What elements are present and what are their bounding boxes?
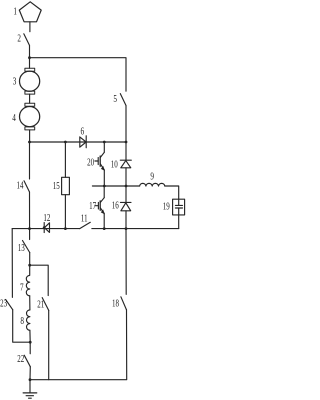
junction resistor top: [64, 141, 67, 144]
wire pentagon to switch 2: [29, 22, 31, 32]
svg-text:8: 8: [20, 316, 24, 327]
svg-text:18: 18: [112, 298, 119, 309]
switch 11: [80, 222, 92, 230]
wire switch 5 to node C: [125, 106, 127, 143]
junction diode16 bottom: [125, 227, 128, 230]
diode D10: [120, 142, 131, 186]
svg-text:10: 10: [111, 159, 118, 170]
diode D6: [80, 136, 86, 148]
junction diode10 top: [125, 141, 128, 144]
svg-text:23: 23: [0, 298, 7, 309]
switch 2: [24, 34, 30, 46]
svg-text:5: 5: [113, 94, 117, 105]
switch 13: [23, 241, 30, 253]
component 19 (battery box): [173, 199, 185, 215]
ground: [23, 380, 37, 399]
wire switch 21 to bottom rail: [48, 310, 50, 379]
rail node F y186: [92, 185, 139, 187]
svg-text:22: 22: [17, 354, 24, 365]
wire motor 3 to motor 4: [29, 94, 31, 103]
svg-text:1: 1: [13, 6, 17, 17]
switch 21: [42, 298, 49, 311]
igbt 20: [95, 142, 105, 186]
junction igbt17 emitter rail: [103, 227, 106, 230]
inductor 8: [26, 310, 29, 330]
junction igbt20 top: [103, 141, 106, 144]
switch 22: [24, 355, 30, 367]
wire motor 4 to node B: [29, 130, 31, 142]
wire box 19 to rail C: [178, 215, 180, 229]
svg-text:3: 3: [13, 76, 17, 87]
svg-text:20: 20: [87, 158, 94, 169]
node A junction: [28, 56, 31, 59]
inductor 7: [26, 265, 29, 296]
bottom rail wire: [30, 310, 127, 380]
inductor 9: [140, 183, 165, 186]
motor 4: [20, 103, 40, 130]
node B junction: [28, 141, 31, 144]
rail C y228: [12, 228, 179, 230]
wire rail C left corner to switch 23: [11, 229, 13, 298]
wire inductor 9 to box 19: [165, 186, 179, 199]
wire switch 22 to ground node: [29, 367, 31, 380]
node D junction: [28, 264, 31, 267]
wire node E to switch 22: [29, 342, 31, 354]
svg-text:19: 19: [163, 202, 170, 213]
svg-text:16: 16: [112, 201, 119, 212]
svg-text:9: 9: [150, 172, 154, 183]
igbt 17: [95, 186, 105, 229]
svg-text:15: 15: [53, 181, 60, 192]
switch 5: [120, 94, 126, 106]
svg-text:14: 14: [17, 180, 24, 191]
wire node D to switch 21 branch: [30, 265, 49, 295]
diode D12: [43, 223, 50, 233]
motor 3: [20, 68, 40, 94]
svg-text:13: 13: [18, 243, 25, 254]
svg-text:4: 4: [12, 113, 16, 124]
wire switch 13 to node D: [29, 253, 31, 266]
switch 23: [6, 300, 13, 310]
junction diode10 bottom: [125, 185, 128, 188]
switch 14: [24, 181, 30, 192]
svg-text:17: 17: [89, 201, 96, 212]
svg-text:7: 7: [20, 283, 24, 294]
wire inductor 7 to inductor 8: [29, 296, 31, 310]
wire node B to switch 14: [29, 142, 31, 179]
wire switch 14 across rail C to switch 13: [29, 192, 31, 240]
node E junction: [29, 341, 32, 344]
component 1 (pentagon source): [19, 2, 41, 22]
svg-text:11: 11: [81, 214, 88, 225]
wire switch 2 to node A: [29, 45, 31, 68]
svg-text:12: 12: [43, 213, 50, 224]
ground node junction: [29, 378, 32, 381]
junction x29 rail C: [28, 227, 31, 230]
diode D16: [120, 186, 131, 229]
svg-text:21: 21: [37, 299, 44, 310]
wire switch 23 to node E: [13, 310, 31, 343]
wire top rail node A to right corner: [30, 58, 127, 91]
wire switch 18 up to rail C: [125, 229, 127, 295]
svg-text:6: 6: [81, 126, 85, 137]
junction igbt20 emitter: [103, 185, 106, 188]
resistor 15: [62, 142, 70, 229]
wire inductor 8 to node E: [29, 330, 31, 342]
svg-text:2: 2: [17, 33, 21, 44]
junction resistor bottom: [64, 227, 67, 230]
rail node B y142: [30, 141, 127, 143]
switch 18: [121, 297, 127, 310]
